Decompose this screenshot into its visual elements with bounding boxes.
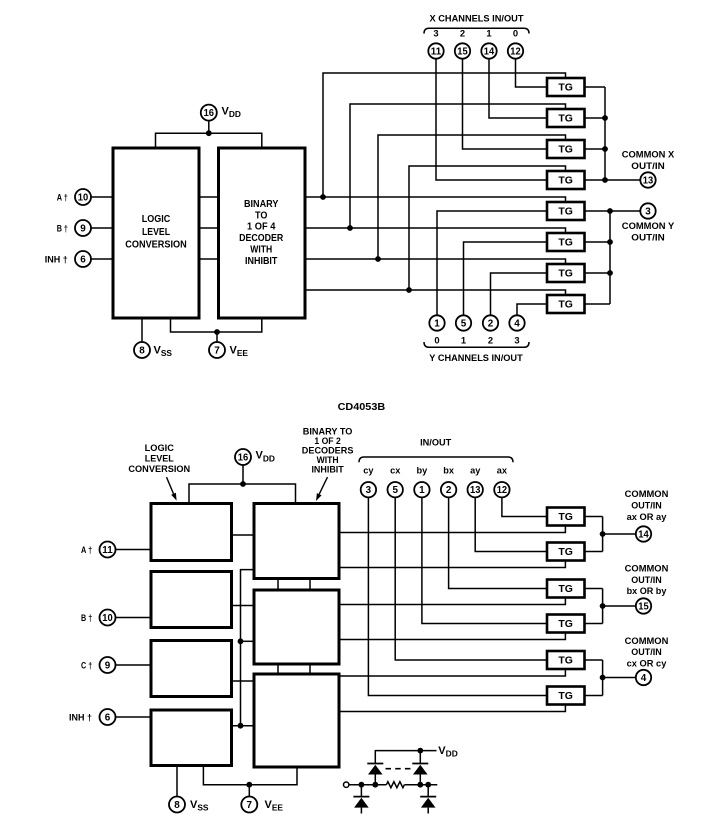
junction X bus 3 (602, 146, 608, 152)
wire TG2 out (585, 117, 606, 119)
pin 4 (Y3) (509, 315, 524, 330)
wire TG8 out (585, 303, 611, 305)
wire TG by out (585, 623, 603, 625)
junction VDD bottom (240, 481, 246, 487)
wire C conv to dec3 (232, 680, 255, 682)
pin 16 (VDD) bottom (235, 449, 251, 465)
svg-text:6: 6 (80, 255, 86, 266)
svg-text:VDD: VDD (222, 105, 241, 119)
svg-text:CONVERSION: CONVERSION (128, 464, 190, 475)
svg-text:16: 16 (238, 453, 249, 464)
svg-text:12: 12 (497, 485, 508, 496)
pin 11 (X3) (428, 43, 443, 58)
junction out4 (406, 287, 412, 293)
junction INH dec3 (238, 723, 244, 729)
wire INH tap dec2 (241, 640, 255, 642)
pin 6 (INH) bottom (100, 709, 116, 725)
svg-text:Y CHANNELS IN/OUT: Y CHANNELS IN/OUT (429, 352, 523, 363)
svg-text:INH †: INH † (45, 255, 68, 266)
wire A to box (91, 196, 113, 198)
svg-text:IN/OUT: IN/OUT (420, 438, 451, 449)
wire cy to TG c2 (368, 497, 547, 696)
wire LLC-decoder c (199, 258, 219, 260)
pin 16 (VDD) (201, 105, 217, 121)
TG switch cy (547, 687, 585, 705)
junction pair b (600, 603, 606, 609)
svg-text:1: 1 (419, 485, 425, 496)
svg-text:TO: TO (255, 210, 267, 221)
diode D4 (to VEE) (420, 797, 436, 808)
svg-text:cx: cx (390, 466, 401, 476)
svg-text:1 OF 4: 1 OF 4 (247, 222, 275, 233)
svg-text:B †: B † (81, 613, 92, 624)
wire TG1 out (585, 86, 606, 88)
svg-text:BINARY: BINARY (244, 199, 279, 210)
pin 12 (ax) (494, 482, 509, 497)
junction Y bus 1 (607, 208, 613, 214)
svg-text:6: 6 (105, 713, 111, 724)
svg-text:cy: cy (363, 466, 374, 476)
svg-text:COMMON: COMMON (625, 489, 669, 500)
svg-text:14: 14 (484, 47, 495, 58)
svg-text:VSS: VSS (190, 799, 209, 813)
svg-text:COMMON: COMMON (625, 636, 669, 647)
svg-text:1: 1 (461, 335, 466, 346)
svg-text:bx: bx (443, 466, 455, 476)
svg-text:VEE: VEE (265, 799, 284, 813)
wire LLC-decoder b (199, 227, 219, 229)
wire D2 anode (419, 775, 421, 785)
pin 8 (VSS) (134, 342, 150, 358)
wire tap to pin15 (603, 605, 637, 607)
wire TG4 out to pin13 (585, 179, 641, 181)
wire riser to TG3 control (378, 135, 566, 259)
TG switch ax (547, 508, 585, 526)
svg-text:LOGIC: LOGIC (142, 214, 171, 225)
svg-text:5: 5 (392, 485, 398, 496)
svg-text:OUT/IN: OUT/IN (631, 575, 661, 586)
pin 15 (common b) (636, 598, 651, 613)
svg-text:5: 5 (461, 319, 467, 330)
svg-text:4: 4 (641, 673, 647, 684)
box conversion INH (151, 710, 232, 766)
box conversion C (151, 641, 232, 697)
svg-text:0: 0 (513, 27, 518, 38)
svg-text:WITH: WITH (250, 245, 272, 256)
bracket IN/OUT (359, 457, 513, 462)
wire VDD link bottom (189, 484, 296, 504)
svg-text:TG: TG (558, 144, 573, 155)
TG switch X0 (547, 171, 585, 189)
junction pair a (600, 531, 606, 537)
wire D4 anode (427, 808, 429, 814)
bracket Y channels (424, 342, 529, 347)
wire cx to TG c1 (395, 497, 547, 660)
wire B to box (91, 227, 113, 229)
wire pair bus a (602, 517, 604, 552)
wire pair bus b (602, 589, 604, 624)
svg-text:9: 9 (105, 661, 111, 672)
arrow to decoder box (316, 477, 328, 501)
wire D3 anode (360, 808, 362, 814)
svg-text:cx OR cy: cx OR cy (627, 659, 667, 670)
wire VDD stem bottom (242, 465, 244, 484)
wire VSS stem bottom (176, 766, 178, 797)
diode D2 (to VDD) (412, 764, 428, 775)
svg-text:C †: C † (81, 661, 92, 672)
wire D3 cathode (360, 785, 362, 797)
wire TG6 out (585, 241, 611, 243)
pin 4 (common c) (636, 670, 651, 685)
junction rail n4 (425, 782, 431, 788)
wire dec3 out to TG c1 ctl (339, 669, 565, 676)
wire VEE stem (216, 332, 218, 342)
wire A in (115, 549, 151, 551)
junction pair c (600, 675, 606, 681)
wire dec1 out to TG a2 ctl (339, 561, 565, 568)
wire riser to TG1 control (323, 73, 566, 197)
svg-text:0: 0 (434, 335, 439, 346)
junction rail n1 (359, 782, 365, 788)
wire dec1 out to TG a1 ctl (339, 526, 565, 533)
wire VEE link (171, 318, 262, 332)
svg-text:9: 9 (80, 224, 86, 235)
pin 3 (COMMON Y) (640, 203, 655, 218)
svg-text:10: 10 (102, 613, 113, 624)
pin 13 (ay) (468, 482, 483, 497)
svg-text:TG: TG (558, 82, 573, 93)
svg-text:INHIBIT: INHIBIT (311, 464, 344, 474)
pin 14 (common a) (636, 526, 651, 541)
wire VDD stem (208, 120, 210, 133)
box conversion A (151, 504, 232, 561)
pin 15 (X2) (455, 43, 470, 58)
svg-text:LEVEL: LEVEL (145, 454, 174, 465)
svg-text:CD4053B: CD4053B (338, 402, 386, 413)
svg-text:TG: TG (558, 113, 573, 124)
junction VEE bottom (246, 782, 252, 788)
TG switch X2 (547, 109, 585, 127)
svg-text:TG: TG (558, 237, 573, 248)
svg-text:3: 3 (645, 207, 651, 218)
wire pin2 to TG7 input (491, 273, 548, 316)
svg-text:by: by (417, 466, 429, 476)
TG switch by (547, 615, 585, 633)
wire riser to TG2 control (350, 104, 566, 228)
svg-text:VDD: VDD (256, 450, 275, 464)
wire input rail right (404, 784, 437, 786)
svg-text:COMMON X: COMMON X (622, 150, 675, 161)
wire TG3 out (585, 148, 606, 150)
svg-text:OUT/IN: OUT/IN (631, 232, 664, 243)
svg-text:11: 11 (102, 545, 113, 556)
wire decoder out2 to TG6 control (305, 228, 566, 234)
svg-text:COMMON Y: COMMON Y (622, 221, 675, 232)
svg-text:8: 8 (139, 346, 145, 357)
pin 2 (bx) (441, 482, 456, 497)
wire riser to TG4 control (409, 166, 566, 290)
wire B in (115, 617, 151, 619)
wire A conv to dec1 (232, 534, 255, 536)
svg-text:12: 12 (510, 47, 521, 58)
pin 13 (COMMON X) (640, 172, 655, 187)
junction X bus 4 (602, 177, 608, 183)
wire LLC-decoder a (199, 196, 219, 198)
pin 6 (INH) (75, 251, 91, 267)
TG switch Y0 (547, 202, 585, 220)
wire pin12 to TG1 input (516, 58, 548, 87)
svg-text:TG: TG (558, 268, 573, 279)
wire dec1-dec2 link a (277, 579, 279, 591)
wire D1 anode (374, 775, 376, 785)
svg-text:CONVERSION: CONVERSION (125, 240, 186, 251)
svg-text:DECODER: DECODER (239, 233, 284, 244)
wire INH conv out (232, 725, 255, 727)
box decoder 1 (254, 504, 339, 579)
junction INH dec2 (238, 638, 244, 644)
pin 10 (B) (100, 610, 116, 626)
TG switch X3 (547, 78, 585, 96)
svg-text:10: 10 (78, 193, 89, 204)
svg-text:B †: B † (57, 224, 68, 235)
wire pin14 to TG2 input (489, 58, 547, 118)
wire VSS stem (141, 318, 143, 342)
junction VDD (206, 130, 212, 136)
diode D1 (to VDD) (367, 764, 383, 775)
svg-text:8: 8 (174, 800, 180, 811)
dashed link D1-D2 (386, 768, 412, 770)
TG switch bx (547, 580, 585, 598)
wire dec2-dec3 link a (277, 664, 279, 674)
wire pin15 to TG3 input (463, 58, 548, 149)
svg-text:14: 14 (638, 530, 649, 541)
resistor R series (386, 782, 404, 788)
wire TG ax out (585, 516, 603, 518)
wire B conv to dec2 (232, 605, 255, 607)
svg-text:VEE: VEE (230, 345, 249, 359)
svg-text:COMMON: COMMON (625, 564, 669, 575)
svg-text:11: 11 (431, 47, 442, 58)
svg-text:TG: TG (558, 175, 573, 186)
svg-text:2: 2 (488, 319, 494, 330)
junction out2 (347, 225, 353, 231)
wire decoder out3 to TG7 control (305, 259, 566, 265)
svg-text:INHIBIT: INHIBIT (245, 256, 278, 267)
svg-text:VSS: VSS (154, 345, 173, 359)
box binary 1-of-4 decoder (219, 148, 306, 318)
diode D3 (to VEE) (353, 797, 369, 808)
wire VEE stem bottom (248, 785, 250, 797)
svg-text:15: 15 (638, 602, 649, 613)
svg-text:LEVEL: LEVEL (142, 227, 170, 238)
svg-text:16: 16 (204, 108, 215, 119)
svg-text:bx OR by: bx OR by (627, 586, 667, 597)
wire TG bx out (585, 588, 603, 590)
box logic level conversion (top) (113, 148, 199, 318)
svg-text:INH †: INH † (69, 713, 92, 724)
pin 11 (A) (100, 542, 116, 558)
wire VDD rail protection (375, 751, 436, 764)
wire INH bus (241, 570, 255, 726)
pin 3 (cy) (361, 482, 376, 497)
junction rail n3 (417, 782, 423, 788)
junction Y bus 2 (607, 239, 613, 245)
svg-text:TG: TG (558, 691, 573, 702)
svg-text:3: 3 (514, 335, 519, 346)
wire D4 cathode (427, 785, 429, 797)
junction Y bus 3 (607, 270, 613, 276)
wire pin1 to TG5 input (437, 211, 547, 316)
pin 9 (C) (100, 657, 116, 673)
svg-text:2: 2 (460, 27, 465, 38)
svg-text:2: 2 (446, 485, 452, 496)
pin 5 (Y1) (456, 315, 471, 330)
svg-text:TG: TG (558, 299, 573, 310)
wire TG ay out (585, 551, 603, 553)
junction X bus 2 (602, 115, 608, 121)
wire pair bus c (602, 660, 604, 696)
svg-text:ax: ax (497, 466, 508, 476)
TG switch Y3 (547, 295, 585, 313)
wire ay to TG a2 (475, 497, 547, 552)
svg-text:OUT/IN: OUT/IN (631, 500, 661, 511)
wire INH in (115, 716, 151, 718)
wire C in (115, 664, 151, 666)
wire by to TG b2 (422, 497, 547, 624)
svg-text:3: 3 (366, 485, 372, 496)
wire VDD link to boxes (156, 133, 262, 148)
pin 7 (VEE) bottom (241, 797, 257, 813)
pin 7 (VEE) (209, 342, 225, 358)
wire dec3 out to TG c2 ctl (339, 705, 565, 712)
junction out3 (375, 256, 381, 262)
wire input rail left (349, 784, 386, 786)
pin 10 (A) (75, 189, 91, 205)
svg-text:TG: TG (558, 584, 573, 595)
svg-text:15: 15 (457, 47, 468, 58)
svg-text:13: 13 (643, 176, 654, 187)
wire tap to pin14 (603, 533, 637, 535)
svg-text:OUT/IN: OUT/IN (631, 647, 661, 658)
terminal open circle (344, 782, 349, 787)
svg-text:A †: A † (81, 545, 92, 556)
TG switch cx (547, 651, 585, 669)
svg-text:TG: TG (558, 655, 573, 666)
pin 2 (Y2) (483, 315, 498, 330)
svg-text:OUT/IN: OUT/IN (631, 161, 664, 172)
svg-text:3: 3 (433, 27, 438, 38)
svg-text:1: 1 (434, 319, 440, 330)
TG switch Y1 (547, 233, 585, 251)
pin 5 (cx) (388, 482, 403, 497)
junction VDD rail (417, 748, 423, 754)
wire dec2 out to TG b1 ctl (339, 598, 565, 605)
pin 1 (Y0) (429, 315, 444, 330)
TG switch X1 (547, 140, 585, 158)
pin 12 (X0) (508, 43, 523, 58)
svg-text:TG: TG (558, 547, 573, 558)
pin 9 (B) (75, 220, 91, 236)
svg-text:VDD: VDD (438, 745, 457, 759)
wire TG5 out to pin3 (585, 210, 641, 212)
svg-text:TG: TG (558, 206, 573, 217)
wire pin5 to TG6 input (464, 242, 548, 316)
junction VEE (214, 329, 220, 335)
wire TG7 out (585, 272, 611, 274)
pin 14 (X1) (481, 43, 496, 58)
svg-text:4: 4 (514, 319, 520, 330)
pin 8 (VSS) bottom (169, 797, 185, 813)
svg-text:A †: A † (57, 193, 68, 204)
svg-text:ay: ay (470, 466, 481, 476)
wire bx to TG b1 (449, 497, 547, 589)
wire diode D2 cathode stem (419, 751, 421, 764)
svg-text:ax OR ay: ax OR ay (627, 512, 667, 523)
wire TG cx out (585, 659, 603, 661)
svg-text:LOGIC: LOGIC (145, 443, 174, 454)
wire dec2-dec3 link b (309, 664, 311, 674)
wire Y common bus (609, 211, 611, 304)
wire pin4 to TG8 input (517, 304, 547, 316)
pin 1 (by) (414, 482, 429, 497)
arrow to conversion box (167, 477, 177, 501)
svg-text:1: 1 (486, 27, 491, 38)
wire pin11 to TG4 input (436, 58, 547, 180)
wire ax to TG a1 (502, 497, 547, 517)
junction out1 (320, 194, 326, 200)
box decoder 2 (254, 590, 339, 664)
wire dec1-dec2 link b (309, 579, 311, 591)
TG switch ay (547, 543, 585, 561)
svg-text:13: 13 (470, 485, 481, 496)
junction rail n2 (372, 782, 378, 788)
wire dec2 out to TG b2 ctl (339, 633, 565, 640)
svg-text:7: 7 (214, 346, 220, 357)
wire decoder out1 to TG5 control (305, 197, 566, 203)
wire TG cy out (585, 695, 603, 697)
box conversion B (151, 572, 232, 628)
svg-text:7: 7 (247, 800, 253, 811)
svg-text:2: 2 (488, 335, 493, 346)
wire INH to box (91, 258, 113, 260)
bracket X channels (424, 28, 529, 33)
TG switch Y2 (547, 264, 585, 282)
svg-text:X CHANNELS IN/OUT: X CHANNELS IN/OUT (430, 12, 524, 23)
wire tap to pin4 (603, 677, 637, 679)
wire X common bus (604, 87, 606, 180)
wire decoder out4 to TG8 control (305, 290, 566, 296)
box decoder 3 (254, 674, 339, 767)
wire VEE link bottom (203, 766, 297, 785)
svg-text:TG: TG (558, 619, 573, 630)
svg-text:TG: TG (558, 512, 573, 523)
